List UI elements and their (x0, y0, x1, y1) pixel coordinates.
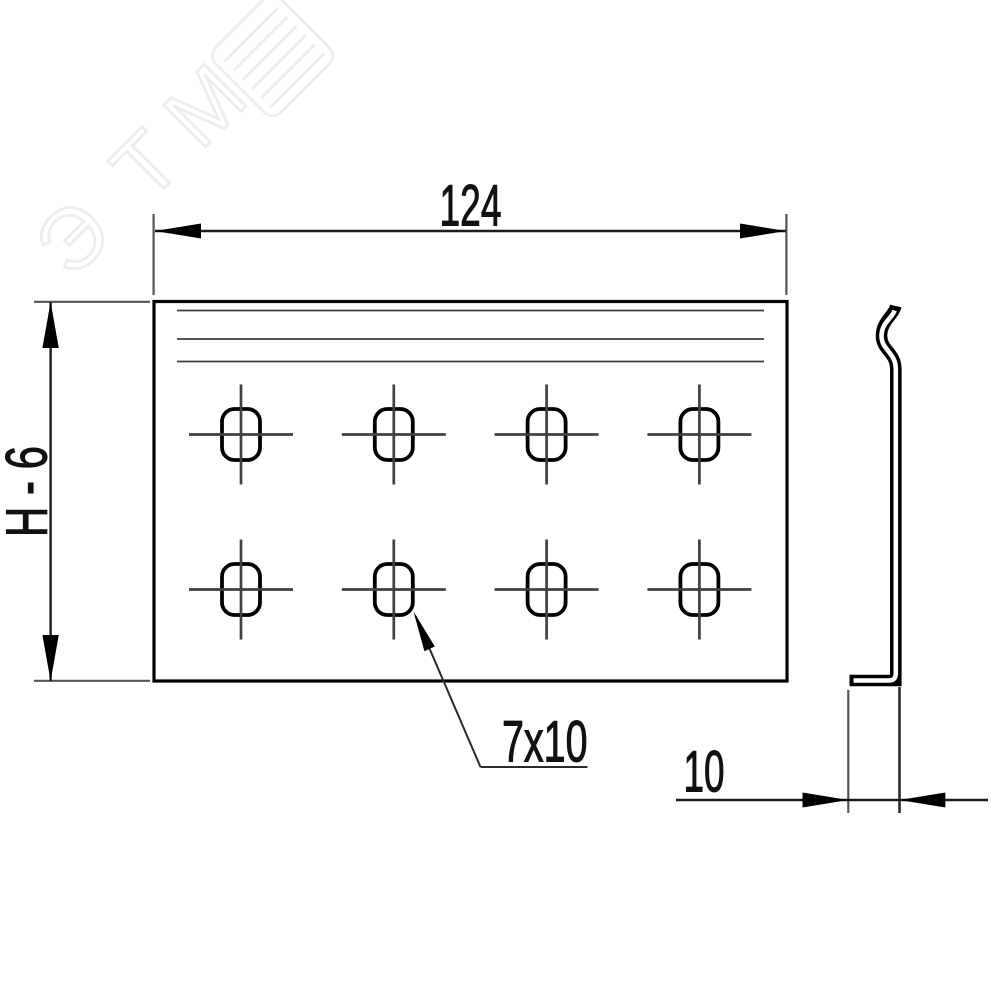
holes: 2 rows x 4 cols, 7x10 obround (222, 409, 718, 615)
svg-text:124: 124 (440, 174, 502, 239)
dim H-6: extension lines (34, 301, 150, 303)
hole r1c1 (222, 409, 260, 460)
crosshair r2c2 (342, 588, 446, 591)
svg-text:7x10: 7x10 (502, 710, 588, 775)
plate front view outline (154, 302, 787, 682)
dim H-6: bottom arrow (42, 635, 58, 681)
watermark logo ЭТМ (17, 0, 337, 301)
hole r2c4 (680, 564, 718, 615)
hole r2c2 (375, 564, 413, 615)
crosshair r1c2 (342, 433, 446, 436)
crosshair r1c3 (495, 433, 599, 436)
dim 124: extension lines (153, 214, 155, 295)
hole r1c2 (375, 409, 413, 460)
hole r2c1 (222, 564, 260, 615)
hole r1c4 (680, 409, 718, 460)
dim 124: dimension line (155, 230, 786, 232)
dim 10: right extension line (898, 687, 901, 813)
leader underline (481, 766, 588, 768)
side profile black body (850, 306, 896, 681)
leader line 7x10 (416, 616, 481, 767)
leader arrowhead (414, 612, 435, 652)
svg-text:Э: Э (17, 182, 129, 294)
dim 10: left extension line (847, 690, 849, 813)
dim 10: dimension line (676, 799, 988, 801)
crosshair centerlines (189, 385, 751, 640)
rib line 3 (177, 361, 764, 363)
hole r1c3 (528, 409, 566, 460)
crosshair r1c1 (189, 433, 293, 436)
side profile white core (854, 311, 896, 681)
dim 10: left arrow (803, 793, 849, 808)
svg-text:10: 10 (684, 740, 725, 805)
crosshair r2c3 (495, 588, 599, 591)
crosshair r1c4 (647, 433, 751, 436)
crosshair r2c4 (647, 588, 751, 591)
crosshair r2c1 (189, 588, 293, 591)
dim H-6: dimension line (49, 302, 51, 681)
dim H-6: top arrow (42, 302, 58, 348)
rib line 2 (177, 338, 764, 340)
rib line 1 (177, 310, 764, 312)
dim 124: left arrow (155, 224, 201, 239)
dim 10: right arrow (900, 793, 946, 808)
svg-text:H - 6: H - 6 (0, 446, 60, 537)
dim 124: right arrow (740, 224, 786, 239)
hole r2c3 (528, 564, 566, 615)
